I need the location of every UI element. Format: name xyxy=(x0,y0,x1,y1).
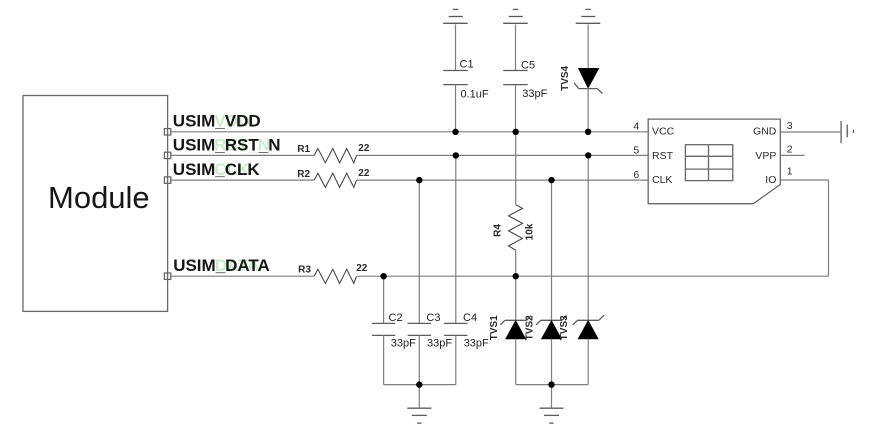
svg-text:C5: C5 xyxy=(521,60,535,72)
capacitor C5 33pF xyxy=(503,24,547,131)
wire net USIM_RST_N from module to R1 xyxy=(171,154,314,156)
svg-text:R4: R4 xyxy=(493,224,504,237)
svg-text:TVS2: TVS2 xyxy=(524,315,535,340)
tvs diode TVS2 on CLK xyxy=(524,180,567,385)
wire IO riser vertical xyxy=(828,180,830,276)
junction CLK-C3 xyxy=(416,177,422,183)
capacitor C1 0.1uF xyxy=(443,24,489,131)
svg-text:GND: GND xyxy=(753,126,777,138)
svg-text:USIM_CLK: USIM_CLK xyxy=(173,160,261,179)
wire net USIM_DATA from module to R3 xyxy=(171,275,314,277)
ground top above C5 xyxy=(503,9,528,23)
svg-text:C1: C1 xyxy=(460,58,474,70)
wire ground bus under TVS1 TVS2 TVS3 xyxy=(516,384,589,386)
wire net USIM_VDD from module to pin 4 xyxy=(171,131,648,133)
svg-text:C3: C3 xyxy=(426,312,440,324)
ground bottom under capacitor bus xyxy=(407,385,431,424)
junction TVS bus ground xyxy=(548,381,554,387)
svg-text:3: 3 xyxy=(787,120,793,132)
junction DATA-R4-TVS1 xyxy=(513,273,519,279)
resistor R2 xyxy=(297,168,370,188)
wire net USIM_CLK from module to R2 xyxy=(171,179,314,181)
module pin square USIM_DATA xyxy=(164,273,170,279)
ground bottom under TVS bus xyxy=(540,385,564,424)
junction cap bus ground xyxy=(416,381,422,387)
svg-text:1: 1 xyxy=(787,166,793,178)
junction VDD-TVS4 xyxy=(585,129,591,135)
junction RST-C4 xyxy=(453,152,459,158)
capacitor C4 branch from RST xyxy=(444,155,489,384)
ground right of pin 3 xyxy=(841,121,853,143)
svg-text:4: 4 xyxy=(633,120,639,132)
wire net DATA from R3 to IO riser xyxy=(357,275,828,277)
svg-text:IO: IO xyxy=(765,174,776,186)
wire ground bus under C2 C3 C4 xyxy=(384,384,456,386)
resistor R3 xyxy=(298,263,368,284)
svg-text:USIM_DATA: USIM_DATA xyxy=(173,256,270,275)
module M1 body xyxy=(23,96,168,312)
capacitor C2 branch from DATA xyxy=(372,276,416,384)
svg-text:C2: C2 xyxy=(389,312,403,324)
svg-text:5: 5 xyxy=(633,145,639,157)
wire pin 3 GND to ground xyxy=(780,131,840,133)
ground top above TVS4 xyxy=(576,9,601,23)
svg-text:22: 22 xyxy=(356,263,368,274)
svg-text:VPP: VPP xyxy=(755,150,776,162)
junction VDD-C5-R4 xyxy=(513,129,519,135)
svg-text:RST: RST xyxy=(652,150,674,162)
wire net CLK from R2 to pin 6 xyxy=(357,179,649,181)
ground top above C1 xyxy=(443,9,468,23)
module pin square USIM_VDD xyxy=(164,129,170,135)
svg-text:TVS3: TVS3 xyxy=(559,315,570,340)
svg-text:USIM_RST_N: USIM_RST_N xyxy=(173,136,281,155)
svg-text:C4: C4 xyxy=(463,312,477,324)
svg-text:Module: Module xyxy=(48,180,150,215)
sim connector U1 body xyxy=(648,119,780,204)
svg-text:2: 2 xyxy=(787,144,793,156)
junction VDD-C1 xyxy=(452,129,458,135)
svg-text:22: 22 xyxy=(358,143,370,154)
svg-text:R1: R1 xyxy=(297,144,310,155)
svg-text:6: 6 xyxy=(633,169,639,181)
svg-text:0.1uF: 0.1uF xyxy=(461,88,489,100)
tvs diode TVS4 xyxy=(560,24,602,131)
svg-text:USIM_VDD: USIM_VDD xyxy=(173,111,261,130)
junction CLK-TVS2 xyxy=(548,177,554,183)
resistor R4 vertical 10k pull-up xyxy=(493,132,536,276)
wire pin 1 IO horizontal xyxy=(780,179,828,181)
wire pin 2 VPP stub xyxy=(780,154,804,156)
svg-text:33pF: 33pF xyxy=(464,338,489,350)
svg-text:10k: 10k xyxy=(525,223,536,240)
svg-text:R2: R2 xyxy=(297,169,310,180)
capacitor C3 branch from CLK xyxy=(408,180,453,385)
svg-text:TVS1: TVS1 xyxy=(489,315,500,340)
svg-text:22: 22 xyxy=(358,168,370,179)
junction DATA-C2 xyxy=(380,273,386,279)
svg-text:33pF: 33pF xyxy=(391,338,416,350)
svg-text:CLK: CLK xyxy=(652,174,672,186)
tvs diode TVS1 on DATA xyxy=(489,276,531,384)
resistor R1 xyxy=(297,143,370,163)
junction RST-TVS3 xyxy=(585,152,591,158)
svg-text:33pF: 33pF xyxy=(522,88,547,100)
svg-text:TVS4: TVS4 xyxy=(560,65,571,90)
module pin square USIM_CLK xyxy=(164,177,170,183)
wire net RST from R1 to pin 5 xyxy=(357,154,649,156)
svg-text:R3: R3 xyxy=(298,264,311,275)
tvs diode TVS3 on RST xyxy=(559,155,604,384)
svg-text:VCC: VCC xyxy=(652,126,675,138)
module pin square USIM_RST_N xyxy=(164,152,170,158)
svg-text:33pF: 33pF xyxy=(427,338,452,350)
